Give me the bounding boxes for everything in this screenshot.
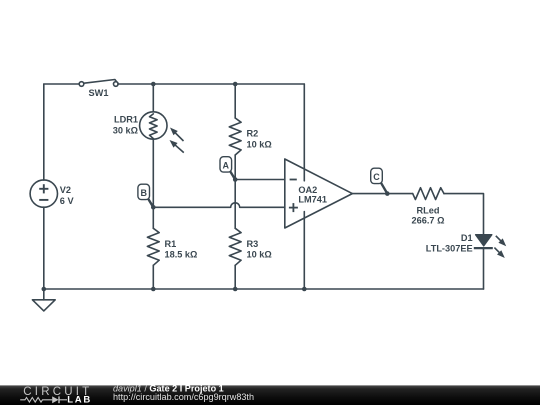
svg-text:R1: R1 <box>165 239 177 249</box>
svg-text:B: B <box>140 188 147 198</box>
wire top rail right segment (SW1 to corner) <box>118 83 304 85</box>
junction top rail / R2 branch <box>233 82 238 87</box>
wire LDR branch upper (top rail to LDR) <box>152 84 154 112</box>
photoresistor LDR1 30 kOhm <box>113 112 167 139</box>
wire op-amp output to RLed <box>352 193 412 195</box>
node B label <box>138 184 153 207</box>
svg-text:RLed: RLed <box>417 205 440 215</box>
wire bottom rail <box>44 288 484 290</box>
svg-text:10 kΩ: 10 kΩ <box>247 249 272 259</box>
svg-text:18.5 kΩ: 18.5 kΩ <box>165 249 198 259</box>
LED D1 LTL-307EE <box>426 233 493 253</box>
svg-text:LM741: LM741 <box>298 195 327 205</box>
svg-text:SW1: SW1 <box>89 88 109 98</box>
wire R3 bottom lead <box>234 265 236 289</box>
junction bottom rail / R1 <box>151 287 156 292</box>
resistor R3 10 kOhm <box>229 228 271 265</box>
wire left rail top (V2 to top rail) <box>43 84 45 180</box>
svg-text:A: A <box>223 161 230 171</box>
wire R2 bottom lead to node A <box>234 155 236 180</box>
svg-text:10 kΩ: 10 kΩ <box>247 139 272 149</box>
junction top rail / LDR branch <box>151 82 156 87</box>
svg-text:V2: V2 <box>60 185 71 195</box>
wire R1 bottom lead <box>152 265 154 289</box>
wire node A to op-amp inverting input <box>235 179 285 181</box>
resistor R1 18.5 kOhm <box>147 228 197 265</box>
switch SW1 <box>79 80 118 99</box>
wire op-amp V+ pin drop (top rail corner down into op-amp) <box>303 84 305 181</box>
wire LED cathode to bottom rail <box>483 248 485 289</box>
svg-text:D1: D1 <box>461 233 473 243</box>
wire node B to op-amp non-inverting input (with hop over vertical wire) <box>153 203 284 207</box>
svg-text:30 kΩ: 30 kΩ <box>113 126 138 136</box>
wire R2 top lead (top rail to R2) <box>234 84 236 118</box>
wire node A down to R3 top lead <box>234 180 236 229</box>
LDR1 light arrows (incoming) <box>170 128 184 153</box>
footer bar <box>0 385 540 405</box>
svg-text:R3: R3 <box>247 239 259 249</box>
wire node B to R1 top lead <box>152 207 154 228</box>
junction bottom rail / op-amp V- <box>302 287 307 292</box>
svg-text:LTL-307EE: LTL-307EE <box>426 244 473 254</box>
junction bottom rail / R3 <box>233 287 238 292</box>
wire LDR branch lower (LDR to node B) <box>152 139 154 208</box>
node A label <box>220 157 235 180</box>
svg-text:LAB: LAB <box>67 395 92 405</box>
wire op-amp V- pin drop (op-amp down to bottom rail) <box>303 212 305 289</box>
node A junction dot <box>233 177 238 182</box>
svg-text:R2: R2 <box>247 128 259 138</box>
resistor R2 10 kOhm <box>229 118 271 155</box>
svg-text:http://circuitlab.com/c6pg9rqr: http://circuitlab.com/c6pg9rqrw83th <box>113 392 254 402</box>
svg-text:C: C <box>373 172 380 182</box>
node C junction dot <box>385 191 390 196</box>
wire top rail left segment (to SW1) <box>44 83 80 85</box>
op-amp OA2 LM741 <box>285 159 353 228</box>
wire RLed to LED corner <box>444 194 484 235</box>
svg-text:OA2: OA2 <box>298 185 317 195</box>
footer CircuitLab logo <box>20 386 92 405</box>
ground <box>32 289 55 311</box>
voltage source V2 6V <box>30 180 74 207</box>
resistor RLed 266.7 Ohm <box>412 188 445 226</box>
node B junction dot <box>151 205 156 210</box>
node C label <box>371 168 388 193</box>
svg-text:LDR1: LDR1 <box>114 115 138 125</box>
wire left rail bottom (V2 to bottom rail) <box>43 207 45 289</box>
svg-text:6 V: 6 V <box>60 196 75 206</box>
LED D1 light arrows (outgoing) <box>494 236 506 258</box>
junction bottom rail / ground <box>42 287 47 292</box>
svg-text:266.7 Ω: 266.7 Ω <box>412 215 445 225</box>
